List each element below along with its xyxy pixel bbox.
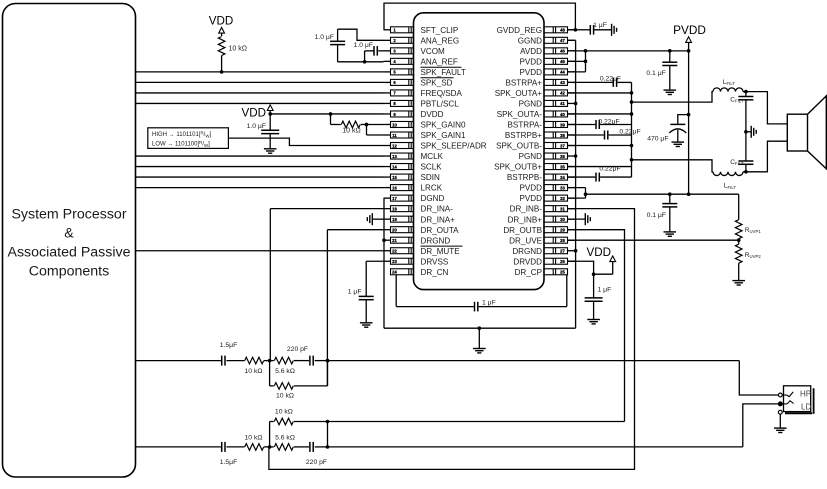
pin 32 PVDD (right) [568,197,576,199]
svg-text:0.22μF: 0.22μF [598,118,619,125]
pin 45 PVDD (right) [568,60,576,62]
svg-text:220 pF: 220 pF [287,346,308,353]
wire ANA_REF [338,61,384,63]
capacitor 0.1 uF PVDD bottom [669,194,671,203]
capacitor 1.0 uF ANA_REG [337,29,339,41]
svg-text:35: 35 [560,164,565,169]
capacitor 1 uF charge pump flying [396,306,474,308]
wire network B feedback line to DR_OUTB [328,421,625,423]
svg-text:470 μF: 470 μF [647,136,668,143]
ground divider [732,280,745,282]
svg-text:LD: LD [801,403,811,412]
svg-text:PVDD: PVDD [520,194,543,203]
svg-text:29: 29 [560,227,565,232]
svg-text:System Processor: System Processor [11,207,126,223]
ground 470uF [672,141,685,143]
pin 18 DR_INA- (left) [384,208,391,210]
svg-text:45: 45 [560,59,565,64]
pin 20 DR_OUTA (left) [384,229,391,231]
wire input from system box [136,360,221,362]
svg-text:SPK_GAIN1: SPK_GAIN1 [421,131,466,140]
pin 11 SPK_GAIN1 (left) [384,134,391,136]
wire SCLK [136,166,384,168]
svg-text:DVDD: DVDD [421,110,444,119]
wire strap box to SPK_SLEEP/ADR [228,138,383,145]
svg-text:DRGND: DRGND [512,247,542,256]
wire filter A line [632,92,714,103]
pin 38 BSTRPB+ (right) [568,134,576,136]
resistor R_UVP2 divider [738,239,740,245]
pin 31 DR_INB- (right) [568,208,576,210]
svg-text:37: 37 [560,143,565,148]
pin 25 DR_CP (right) [544,269,568,275]
svg-text:10 kΩ: 10 kΩ [245,434,263,441]
svg-text:FREQ/SDA: FREQ/SDA [421,89,463,98]
wire VDD to DVDD pin [270,113,383,115]
svg-text:33: 33 [560,185,565,190]
ground jack [774,427,787,429]
svg-text:15: 15 [392,175,397,180]
pin 8 PBTL/SCL (left) [384,102,391,104]
svg-text:1 μF: 1 μF [593,22,607,29]
svg-text:10 kΩ: 10 kΩ [276,392,294,399]
svg-text:18: 18 [392,206,397,211]
capacitor 470 uF bulk electrolytic [678,115,689,125]
svg-text:SDIN: SDIN [421,173,440,182]
wire network A output to DR_OUTA and jack [328,360,740,362]
svg-text:VDD: VDD [242,107,266,120]
svg-text:SPK_GAIN0: SPK_GAIN0 [421,121,466,130]
resistor R_UVP1 divider [738,194,740,220]
pin 9 DVDD (left) [384,113,391,115]
capacitor 0.1 uF PVDD top [669,51,671,62]
svg-text:30: 30 [560,217,565,222]
resistor 10 kOhm series [245,444,264,451]
ground 0.1uF top [664,89,677,91]
svg-text:26: 26 [560,259,565,264]
pin 17 DGND (left) [384,197,391,199]
capacitor 0.22uF BSTRPA+ [568,81,613,83]
pin 19 DR_INA+ (left) [384,218,391,220]
svg-text:PVDD: PVDD [520,68,543,77]
system processor box [3,4,136,478]
ground DR_INB+ sideways [568,218,586,220]
pin 22 DR_MUTE (left) [384,250,391,252]
svg-text:DR_OUTA: DR_OUTA [421,226,460,235]
svg-text:0.1 μF: 0.1 μF [646,70,665,77]
svg-text:PBTL/SCL: PBTL/SCL [421,100,460,109]
wire DVDD to gain resistor [329,112,333,116]
svg-text:10 kΩ: 10 kΩ [245,368,263,375]
svg-text:41: 41 [560,101,565,106]
pin 30 DR_INB+ (right) [568,218,576,220]
capacitor 1.0 uF DVDD decoupling [269,114,271,130]
capacitor C_FILT B [745,132,747,161]
pin 16 LRCK (left) [384,187,391,189]
resistor 5.6 kOhm [270,360,274,362]
svg-text:GGND: GGND [518,36,542,45]
svg-text:40: 40 [560,112,565,117]
pin 21 DRGND (left) [384,239,391,241]
wire to SPK_GAIN0 [367,123,384,125]
resistor 10 kOhm series [245,357,264,364]
capacitor 220 pF [309,356,311,366]
svg-text:DGND: DGND [421,194,445,203]
wire GGND down to PGND [568,39,576,41]
wire output bus vertical [631,82,633,177]
wire DR_UVE to divider tap [568,239,739,241]
svg-text:5.6 kΩ: 5.6 kΩ [275,368,295,375]
svg-text:DR_CP: DR_CP [515,268,542,277]
svg-text:17: 17 [392,196,397,201]
svg-text:ANA_REF: ANA_REF [421,57,458,66]
wire DGND/DRGND vertical [383,198,385,328]
svg-text:DR_UVE: DR_UVE [509,236,542,245]
resistor 10 kOhm feedback [269,422,271,447]
ground DRVSS cap [360,322,373,324]
wire SPK_SD [136,81,384,83]
svg-text:BSTRPA-: BSTRPA- [508,121,543,130]
svg-text:28: 28 [560,238,565,243]
svg-text:1.0 μF: 1.0 μF [354,42,373,49]
svg-text:DR_INB-: DR_INB- [510,205,543,214]
svg-text:5.6 kΩ: 5.6 kΩ [275,434,295,441]
pin 36 PGND (right) [568,155,576,157]
wire DR_CN down [395,275,397,307]
ground DVDD cap [264,148,277,150]
svg-text:27: 27 [560,249,565,254]
capacitor 1.0 uF VCOM [378,50,383,52]
pin 13 MCLK (left) [384,155,391,157]
svg-text:32: 32 [560,196,565,201]
svg-text:SPK_OUTB+: SPK_OUTB+ [494,163,542,172]
svg-text:1.5μF: 1.5μF [220,459,238,466]
ground loop below IC [384,327,576,329]
svg-text:24: 24 [392,270,397,275]
wire PVDD pins to AVDD line [568,60,586,62]
connector HP/LD jack [784,386,811,412]
capacitor 0.22uF BSTRPB- [568,176,596,178]
svg-text:10 kΩ: 10 kΩ [229,46,247,53]
wire lower PVDD rail line [586,193,739,195]
svg-text:46: 46 [560,49,565,54]
svg-text:0.22μF: 0.22μF [619,129,640,136]
pin 35 SPK_OUTB+ (right) [568,166,576,168]
capacitor 1 uF DRVDD [593,274,595,298]
pin 44 PVDD (right) [568,71,576,73]
wire network B output to jack [328,446,743,448]
svg-text:Components: Components [29,264,109,280]
pin 28 DR_UVE (right) [568,239,576,241]
capacitor 0.22uF BSTRPB+ [568,134,604,136]
svg-text:MCLK: MCLK [421,152,444,161]
svg-text:10: 10 [392,122,397,127]
svg-text:12: 12 [392,143,397,148]
pin 14 SCLK (left) [384,166,391,168]
svg-text:PGND: PGND [519,100,543,109]
svg-text:HP: HP [800,390,811,399]
capacitor 1 uF GVDD_REG [575,29,590,31]
wire LRCK [136,187,384,189]
svg-text:47: 47 [560,38,565,43]
svg-text:BSTRPB-: BSTRPB- [507,173,542,182]
svg-text:DR_INA+: DR_INA+ [421,215,456,224]
pin 41 PGND (right) [568,102,576,104]
svg-text:36: 36 [560,154,565,159]
wire DRVDD [568,261,594,274]
wire SPK_FAULT to system box [136,71,384,73]
svg-text:AVDD: AVDD [520,47,542,56]
pin 6 SPK_SD (left) [384,81,391,83]
wire MCLK [136,155,384,157]
svg-text:SPK_OUTB-: SPK_OUTB- [496,142,542,151]
pin 37 SPK_OUTB- (right) [568,145,576,147]
svg-text:21: 21 [392,238,397,243]
ground center tap [478,328,480,348]
svg-text:VDD: VDD [209,15,233,28]
inductor L_FILT B [713,172,743,176]
pin 48 GVDD_REG (right) [568,29,576,31]
svg-text:GVDD_REG: GVDD_REG [497,26,542,35]
wire SPK_OUTA+ [568,92,632,94]
wire DR_INA- [270,208,383,210]
wire to SPK_GAIN1 [366,124,368,135]
svg-text:10 kΩ: 10 kΩ [275,408,293,415]
svg-text:44: 44 [560,70,565,75]
wire ANA_REG loop [338,29,384,40]
wire DR_CP down [566,275,568,307]
svg-text:SPK_SD: SPK_SD [421,79,453,88]
svg-text:&: & [64,226,74,242]
jack pin LD switch [778,402,782,406]
capacitor 1.5 uF input [221,356,223,366]
svg-text:SFT_CLIP: SFT_CLIP [421,26,459,35]
speaker [787,114,807,151]
pin 4 ANA_REF (left) [384,60,391,62]
svg-text:10 kΩ: 10 kΩ [342,128,360,135]
pin 1 SFT_CLIP (left) [384,29,391,31]
pin 47 GGND (right) [568,39,576,41]
svg-text:DRVDD: DRVDD [513,257,542,266]
svg-text:16: 16 [392,185,397,190]
svg-text:LRCK: LRCK [421,184,443,193]
svg-text:20: 20 [392,227,397,232]
jack pin ground sleeve [778,410,782,414]
pin 23 DRVSS (left) [384,260,391,262]
pin 10 SPK_GAIN0 (left) [384,123,391,125]
svg-text:DR_INA-: DR_INA- [421,205,454,214]
wire SDIN [136,176,384,178]
svg-text:39: 39 [560,122,565,127]
pin 3 VCOM (left) [384,50,391,52]
pin 34 BSTRPB- (right) [568,176,576,178]
wire SPK_OUTB+ [568,166,632,168]
resistor 10 kOhm feedback [269,361,271,386]
resistor 5.6 kOhm [270,446,274,448]
wire coil A to speaker [743,92,787,124]
ground DRVDD cap [587,319,600,321]
pin 43 BSTRPA+ (right) [568,81,576,83]
pin 26 DRVDD (right) [568,260,576,262]
ground DR_INA+ [373,218,384,220]
svg-text:DR_OUTB: DR_OUTB [503,226,542,235]
svg-text:19: 19 [392,217,397,222]
svg-text:SPK_OUTA-: SPK_OUTA- [497,110,543,119]
svg-text:PVDD: PVDD [520,57,543,66]
address strap value box HIGH/LOW [148,128,229,149]
wire FREQ/SDA [136,92,384,94]
pin 24 DR_CN (left) [391,269,414,275]
capacitor 220 pF [309,442,311,452]
wire DR_MUTE [136,250,384,252]
wire PVDD lower pins [568,187,586,189]
capacitor C_FILT A [745,92,747,97]
wire SFT_CLIP to GVDD_REG loop [384,3,576,30]
svg-text:31: 31 [560,206,565,211]
svg-text:PVDD: PVDD [673,23,706,37]
svg-text:PVDD: PVDD [520,184,543,193]
wire PVDD rail [688,42,690,194]
svg-text:25: 25 [560,270,565,275]
pin 15 SDIN (left) [384,176,391,178]
svg-text:BSTRPB+: BSTRPB+ [505,131,542,140]
svg-text:Associated Passive: Associated Passive [7,245,130,261]
wire AVDD to PVDD rail [568,50,586,52]
capacitor 1 uF DRVSS [359,295,374,297]
wire DR_OUTB route [568,230,625,422]
wire DRVSS down [366,260,383,262]
ground GVDD cap sideways [611,24,613,36]
svg-text:220 pF: 220 pF [306,459,327,466]
svg-text:1.5μF: 1.5μF [220,342,238,349]
pin 33 PVDD (right) [568,187,576,189]
svg-text:1 μF: 1 μF [482,300,496,307]
svg-text:VDD: VDD [587,246,611,259]
svg-text:42: 42 [560,91,565,96]
svg-text:0.1 μF: 0.1 μF [647,212,666,219]
svg-text:14: 14 [392,164,397,169]
resistor 10 kOhm SPK_GAIN [331,123,341,125]
wire DGND [383,197,386,199]
svg-text:1.0 μF: 1.0 μF [315,34,334,41]
svg-text:43: 43 [560,80,565,85]
svg-text:1 μF: 1 μF [598,287,612,294]
wire coil B to speaker [743,141,787,172]
svg-text:DR_MUTE: DR_MUTE [421,247,461,256]
svg-text:22: 22 [392,249,397,254]
svg-text:SPK_OUTA+: SPK_OUTA+ [495,89,543,98]
svg-text:38: 38 [560,133,565,138]
wire PBTL/SCL [136,102,384,104]
svg-text:23: 23 [392,259,397,264]
svg-text:SCLK: SCLK [421,163,443,172]
pin 12 SPK_SLEEP/ADR (left) [384,145,391,147]
wire DR_OUTA down to network [326,230,328,386]
pin 46 AVDD (right) [568,50,576,52]
pin 5 SPK_FAULT (left) [384,71,391,73]
svg-text:34: 34 [560,175,565,180]
wire pull-up to SPK_FAULT [221,56,223,72]
wire DR_OUTA [327,229,383,231]
wire DR_INB- route [269,209,635,470]
pin 39 BSTRPA- (right) [568,123,576,125]
svg-text:13: 13 [392,154,397,159]
pin 42 SPK_OUTA+ (right) [568,92,576,94]
svg-text:11: 11 [392,133,397,138]
svg-text:1 μF: 1 μF [348,289,362,296]
pin 40 SPK_OUTA- (right) [568,113,576,115]
svg-text:ANA_REG: ANA_REG [421,36,460,45]
jack pin HP switch [778,393,782,397]
wire DR_INA- down to input node [269,209,271,361]
svg-text:DR_CN: DR_CN [421,268,449,277]
wire SPK_OUTB- [568,145,632,147]
op-amp U1 amplifier IC body [414,13,545,290]
pin 2 ANA_REG (left) [384,39,391,41]
svg-text:PGND: PGND [519,152,543,161]
svg-text:1.0 μF: 1.0 μF [247,123,266,130]
wire SPK_OUTA- [568,113,632,115]
capacitor 1.5 uF input [221,442,223,452]
ground 0.1uF bottom [664,231,677,233]
capacitor 0.22uF BSTRPA- [568,123,596,125]
wire input from system box [136,446,221,448]
pin 27 DRGND (right) [568,250,576,252]
wire filter B line [632,160,714,172]
svg-text:SPK_SLEEP/ADR: SPK_SLEEP/ADR [421,142,487,151]
svg-text:BSTRPA+: BSTRPA+ [505,79,542,88]
pin 29 DR_OUTB (right) [568,229,576,231]
pin 7 FREQ/SDA (left) [384,92,391,94]
inductor L_FILT A [713,88,743,92]
svg-text:48: 48 [560,28,565,33]
svg-text:LOW → 1101100[R/W]: LOW → 1101100[R/W] [152,140,210,148]
svg-text:VCOM: VCOM [421,47,446,56]
ground filter midpoint sideways [746,131,751,133]
svg-text:DRGND: DRGND [421,236,451,245]
svg-text:SPK_FAULT: SPK_FAULT [421,68,466,77]
svg-text:0.22μF: 0.22μF [600,76,621,83]
svg-text:DR_INB+: DR_INB+ [508,215,543,224]
resistor 10 kOhm pull-up [218,37,225,56]
svg-text:DRVSS: DRVSS [421,257,449,266]
